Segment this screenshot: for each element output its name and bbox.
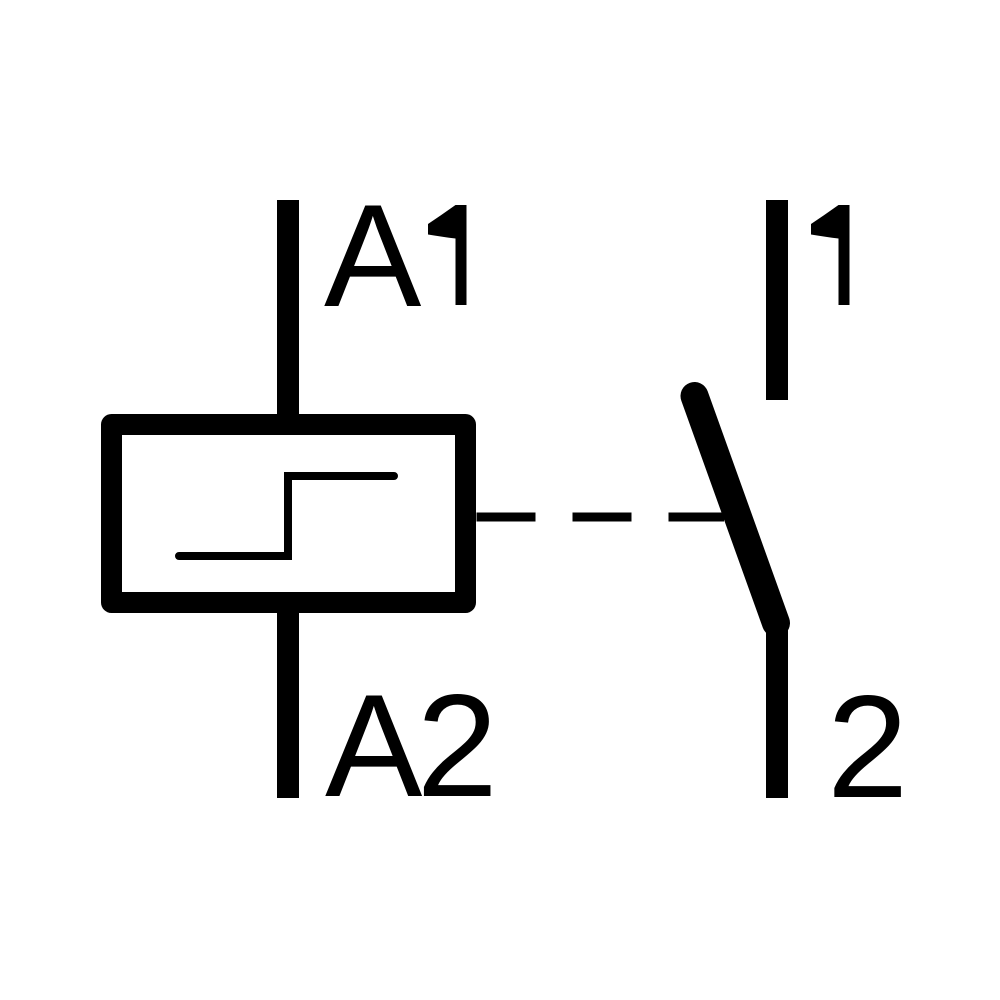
coil K1 (relay coil box with latching step symbol) <box>112 425 466 603</box>
svg-text:2: 2 <box>417 664 498 827</box>
label A1 <box>324 174 467 337</box>
contact terminal 2 (lower fixed contact lead) <box>766 618 788 798</box>
svg-text:A: A <box>325 664 423 827</box>
label A2 <box>325 664 498 827</box>
wire mechanical linkage (dashed line from coil to contact) <box>477 513 725 522</box>
svg-text:2: 2 <box>827 665 908 828</box>
contact terminal 1 (upper fixed contact lead) <box>766 200 788 400</box>
wire A1 terminal lead (top vertical wire into coil) <box>277 200 299 430</box>
contact moving lever (normally-open switch arm) <box>695 396 777 623</box>
label 1 <box>811 205 850 305</box>
svg-text:A: A <box>324 174 422 337</box>
step symbol inside coil <box>179 476 394 556</box>
wire A2 terminal lead (bottom vertical wire from coil) <box>277 600 299 798</box>
